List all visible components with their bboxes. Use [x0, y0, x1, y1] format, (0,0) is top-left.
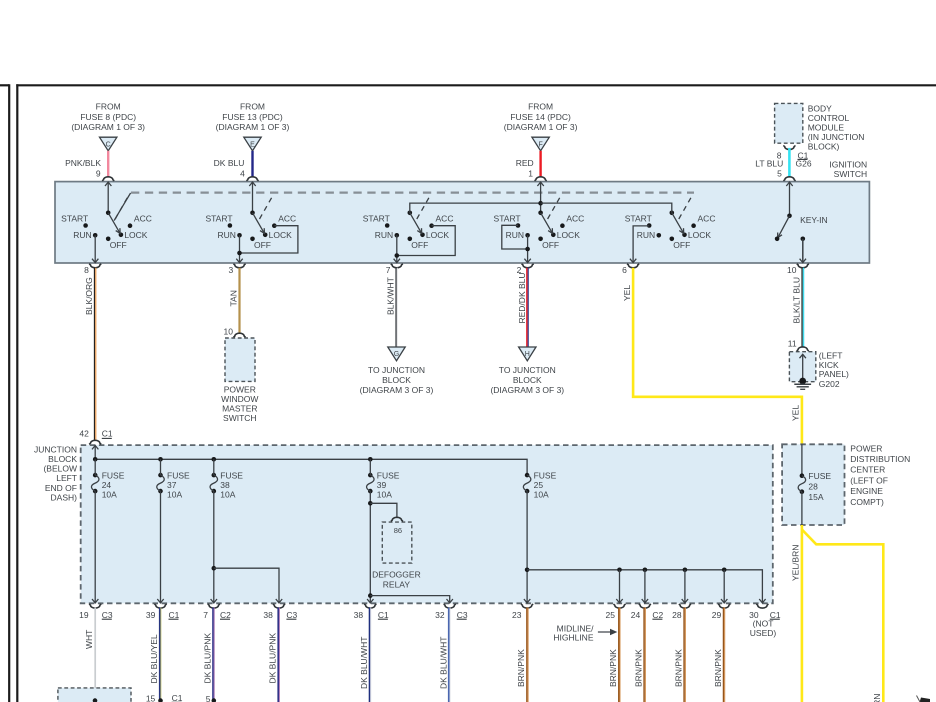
switch cluster 2: rotor arm to LOCK [250, 211, 264, 234]
svg-text:BRN/PNK: BRN/PNK [516, 649, 526, 687]
svg-text:IGNITION: IGNITION [829, 160, 867, 170]
svg-text:DK BLU/PNK: DK BLU/PNK [268, 633, 278, 684]
switch cluster 5: output from START via left leg [630, 226, 649, 263]
node WHT wire termination [93, 698, 98, 702]
svg-text:BLK/LT BLU: BLK/LT BLU [792, 277, 802, 323]
svg-text:5: 5 [777, 169, 782, 179]
svg-text:SWITCH: SWITCH [834, 169, 868, 179]
fuse 28 15A [798, 444, 831, 525]
svg-text:START: START [205, 213, 232, 223]
svg-text:23: 23 [512, 610, 522, 620]
svg-text:START: START [494, 213, 521, 223]
switch cluster 4: linkage dashes [548, 194, 562, 219]
switch cluster 3: rotor arm to LOCK [408, 211, 422, 234]
svg-text:JUNCTION: JUNCTION [34, 445, 77, 455]
svg-text:TAN: TAN [229, 290, 239, 306]
mechanical linkage dashed line [131, 191, 694, 193]
switch cluster 1: position labels START/ACC/RUN/LOCK/OFF [61, 213, 152, 250]
svg-text:FUSE: FUSE [534, 470, 557, 480]
svg-text:OFF: OFF [110, 240, 127, 250]
fuse 24 10A [91, 470, 124, 499]
svg-text:WHT: WHT [84, 630, 94, 649]
svg-text:(IN JUNCTION: (IN JUNCTION [808, 132, 865, 142]
switch cluster 3: ACC jumper bracket [395, 226, 456, 258]
svg-text:OFF: OFF [542, 240, 559, 250]
svg-text:37: 37 [167, 480, 177, 490]
svg-text:39: 39 [377, 480, 387, 490]
svg-text:ACC: ACC [566, 213, 584, 223]
defogger relay K1 (dashed box) pin 86 [382, 517, 412, 563]
junction block pin 42 connector C1 [79, 428, 113, 444]
power distribution center (dashed box) [782, 444, 844, 525]
svg-text:BLOCK: BLOCK [382, 375, 411, 385]
svg-text:FUSE 8 (PDC): FUSE 8 (PDC) [80, 112, 136, 122]
svg-text:8: 8 [84, 265, 89, 275]
svg-text:C1: C1 [102, 428, 113, 438]
wire RED/DK BLU (pin 2 to connector H) [517, 268, 528, 347]
svg-text:1: 1 [528, 169, 533, 179]
switch cluster 3: riser to feed line [410, 203, 541, 213]
svg-text:4: 4 [240, 169, 245, 179]
svg-text:ACC: ACC [278, 213, 296, 223]
svg-text:10: 10 [787, 265, 797, 275]
label MIDLINE/HIGHLINE with arrow [553, 624, 617, 643]
svg-text:FUSE: FUSE [220, 470, 243, 480]
node on bus at fuse 38 [212, 457, 217, 462]
label FROM FUSE 8 (PDC) [71, 102, 145, 132]
wire fuse 39 down to pin 38-C1 [367, 459, 373, 603]
svg-text:RUN: RUN [73, 230, 91, 240]
fuse 25 10A [523, 470, 556, 499]
svg-text:RED: RED [516, 158, 534, 168]
svg-text:START: START [363, 213, 390, 223]
power window master switch (dashed box) [224, 327, 255, 382]
wire BRN/PNK (pin 23 down) [516, 608, 528, 702]
switch cluster 5: linkage dashes [679, 194, 693, 219]
svg-text:START: START [61, 213, 88, 223]
svg-text:OFF: OFF [254, 240, 271, 250]
switch cluster 2: contact dots [228, 223, 277, 241]
svg-text:25: 25 [606, 610, 616, 620]
node on bus at fuse 37 [158, 457, 163, 462]
wire BLK/WHT (pin 7 to connector G) [386, 268, 398, 347]
switch cluster 4: START jumper bracket [502, 225, 530, 251]
connector triangle G (to junction block) [388, 347, 405, 361]
label POWER WINDOW MASTER SWITCH [221, 385, 258, 423]
svg-text:FUSE: FUSE [808, 471, 831, 481]
svg-text:ACC: ACC [436, 213, 454, 223]
svg-text:DASH): DASH) [51, 492, 78, 502]
wire BRN/PNK (pin 29 down) [713, 608, 725, 702]
svg-text:RUN: RUN [217, 230, 235, 240]
svg-text:TO JUNCTION: TO JUNCTION [499, 365, 556, 375]
switch cluster 5: contact dots [647, 223, 696, 241]
wire BRN/PNK (pin 25 down) [608, 608, 620, 702]
svg-text:LEFT: LEFT [56, 473, 77, 483]
wire DK BLU/PNK (pin 7 down) [202, 608, 214, 701]
node on bus at fuse 39 [368, 457, 373, 462]
switch cluster 4: contact dots [516, 223, 565, 241]
svg-text:BRN/PNK: BRN/PNK [674, 649, 684, 687]
svg-text:BLK/WHT: BLK/WHT [386, 277, 396, 315]
svg-text:DK BLU/WHT: DK BLU/WHT [438, 637, 448, 689]
switch cluster 4: output from RUN down [524, 235, 530, 263]
switch cluster 3: contact dots [385, 223, 434, 241]
junction block bottom pin labels [79, 610, 781, 620]
svg-text:FUSE 13 (PDC): FUSE 13 (PDC) [222, 112, 283, 122]
svg-text:BRN/PNK: BRN/PNK [713, 649, 723, 687]
wire DK BLU/PNK (pin 38-C3 down) [268, 608, 280, 702]
svg-text:10A: 10A [167, 489, 182, 499]
switch cluster 5: feed corner from line [541, 203, 672, 213]
svg-text:DISTRIBUTION: DISTRIBUTION [850, 454, 910, 464]
switch cluster 3: output from RUN down [394, 235, 400, 263]
svg-text:5: 5 [206, 694, 211, 702]
fuse 38 10A [210, 470, 243, 499]
switch cluster 3: linkage dashes [417, 194, 431, 219]
svg-text:25: 25 [534, 480, 544, 490]
wire DK BLU (fuse 13 to ignition pin 4) [214, 151, 253, 179]
wire TAN (pin 3 to power window master switch) [229, 268, 240, 334]
switch cluster 1: linkage dashes [115, 194, 129, 219]
ground G202 internal arrow [799, 354, 806, 384]
svg-text:LOCK: LOCK [557, 230, 580, 240]
ignition switch SW1 (box) [55, 182, 869, 263]
svg-text:10A: 10A [377, 489, 392, 499]
svg-text:YEL/BRN: YEL/BRN [791, 545, 801, 581]
wire fuse 24 to pin 19 [92, 459, 98, 603]
svg-text:(DIAGRAM 1 OF 3): (DIAGRAM 1 OF 3) [504, 122, 578, 132]
svg-text:(DIAGRAM 1 OF 3): (DIAGRAM 1 OF 3) [71, 122, 145, 132]
svg-text:LOCK: LOCK [269, 230, 292, 240]
wire YEL/BRN (fuse 28 output, right branch) [802, 530, 883, 702]
rail node to pin 25 [616, 568, 622, 604]
svg-text:CONTROL: CONTROL [808, 113, 850, 123]
svg-text:86: 86 [394, 526, 402, 535]
switch cluster 1: contact dots [83, 223, 132, 241]
svg-text:OFF: OFF [411, 240, 428, 250]
switch cluster 4: feed junction node [538, 201, 543, 206]
svg-text:10A: 10A [220, 489, 235, 499]
node fuse 39 branch to pin 32-C3 [368, 593, 453, 603]
ground G202 (dashed box, left kick panel) [788, 338, 816, 381]
svg-text:END OF: END OF [45, 483, 77, 493]
svg-text:RUN: RUN [506, 230, 524, 240]
svg-text:15: 15 [146, 694, 156, 702]
label JUNCTION BLOCK (BELOW LEFT END OF DASH) [34, 445, 77, 503]
label TO JUNCTION BLOCK (H) [490, 365, 564, 395]
entry arrow pin 42 [92, 445, 98, 459]
pin 5 label and node [206, 694, 216, 702]
junction block bus [95, 459, 527, 475]
bottom-left module (dashed box, cut off) [58, 688, 131, 702]
rail node to pin 29 [721, 568, 727, 604]
bottom pin numbers 8/3/7/2/6/10 [84, 265, 797, 275]
svg-text:3: 3 [228, 265, 233, 275]
svg-text:G202: G202 [819, 379, 840, 389]
svg-text:COMPT): COMPT) [850, 497, 884, 507]
svg-text:ACC: ACC [698, 213, 716, 223]
svg-text:DK BLU/WHT: DK BLU/WHT [359, 637, 369, 689]
fuse 39 10A [367, 470, 400, 499]
svg-text:28: 28 [808, 481, 818, 491]
svg-text:OFF: OFF [673, 240, 690, 250]
svg-text:LOCK: LOCK [124, 230, 147, 240]
connector triangle E [244, 137, 261, 151]
wire BLK/ORG (pin 8 to junction block pin 42) [84, 268, 96, 441]
svg-text:38: 38 [263, 610, 273, 620]
svg-text:15A: 15A [808, 492, 823, 502]
connector triangle H (to junction block) [519, 347, 536, 361]
switch cluster 4: rotor arm to LOCK [538, 211, 552, 234]
svg-text:29: 29 [712, 610, 722, 620]
wire fuse 37 to pin 39 [157, 459, 163, 603]
switch cluster 1: output from RUN down [92, 235, 98, 263]
svg-text:6: 6 [622, 265, 627, 275]
wire BRN/PNK (pin 28 down) [674, 608, 686, 702]
svg-text:E: E [250, 142, 255, 149]
svg-text:FROM: FROM [240, 102, 265, 112]
svg-text:C: C [106, 142, 111, 149]
svg-text:LT BLU: LT BLU [755, 159, 783, 169]
svg-text:ENGINE: ENGINE [850, 486, 883, 496]
svg-text:START: START [625, 213, 652, 223]
KEY-IN output contact [800, 237, 806, 264]
wire DK BLU/WHT (pin 32-C3 down) [438, 608, 450, 702]
svg-text:FROM: FROM [528, 102, 553, 112]
label POWER DISTRIBUTION CENTER (LEFT OF ENGINE COMPT) [850, 443, 910, 507]
svg-text:YEL/BRN: YEL/BRN [872, 694, 882, 702]
svg-text:YEL: YEL [791, 405, 801, 421]
svg-text:9: 9 [96, 169, 101, 179]
linkage bend to cluster 1 arm [114, 193, 131, 221]
svg-text:USED): USED) [750, 628, 777, 638]
svg-text:(DIAGRAM 3 OF 3): (DIAGRAM 3 OF 3) [360, 385, 434, 395]
switch cluster 5: rotor arm to LOCK [670, 211, 684, 234]
svg-text:RELAY: RELAY [383, 579, 411, 589]
connector triangle C [100, 137, 117, 151]
svg-text:BLOCK): BLOCK) [808, 141, 840, 151]
wire DK BLU/YEL (pin 39 down) [149, 608, 161, 701]
svg-text:32: 32 [435, 610, 445, 620]
wire DK BLU/WHT (pin 38-C1 down) [359, 608, 371, 702]
svg-text:SWITCH: SWITCH [223, 413, 257, 423]
svg-text:POWER: POWER [850, 443, 882, 453]
svg-text:H: H [525, 351, 530, 358]
svg-text:TO JUNCTION: TO JUNCTION [368, 365, 425, 375]
wire WHT (pin 19 down) [84, 608, 95, 701]
wire YEL/BRN (fuse 28 output, straight branch) [791, 525, 802, 702]
svg-text:(NOT: (NOT [753, 619, 774, 629]
svg-text:(DIAGRAM 1 OF 3): (DIAGRAM 1 OF 3) [216, 122, 290, 132]
svg-text:DK BLU/YEL: DK BLU/YEL [149, 634, 159, 683]
ground symbol [794, 384, 811, 389]
label (LEFT KICK PANEL) G202 [819, 350, 849, 389]
svg-text:RED/DK BLU: RED/DK BLU [517, 272, 527, 323]
svg-text:24: 24 [102, 480, 112, 490]
svg-text:LOCK: LOCK [688, 230, 711, 240]
svg-text:PNK/BLK: PNK/BLK [65, 158, 101, 168]
rail node to pin 28 [682, 568, 688, 604]
label TO JUNCTION BLOCK (G) [360, 365, 434, 395]
svg-text:BRN/PNK: BRN/PNK [608, 649, 618, 687]
switch cluster 2: position labels START/ACC/RUN/LOCK/OFF [205, 213, 296, 250]
svg-text:C1: C1 [172, 693, 183, 702]
svg-text:10A: 10A [534, 489, 549, 499]
svg-text:DK BLU/PNK: DK BLU/PNK [202, 633, 212, 684]
switch cluster 4: input wire from top with arrow [537, 182, 543, 213]
wire RED (fuse 14 to ignition pin 1) [516, 151, 541, 179]
svg-text:KEY-IN: KEY-IN [800, 215, 828, 225]
ignition box top pin bumps 9/4/1/5 [102, 177, 796, 181]
svg-text:G: G [394, 351, 399, 358]
svg-text:FUSE: FUSE [167, 470, 190, 480]
svg-text:(DIAGRAM 3 OF 3): (DIAGRAM 3 OF 3) [490, 385, 564, 395]
svg-text:39: 39 [146, 610, 156, 620]
svg-text:10A: 10A [102, 489, 117, 499]
BCM pin 8 connector C1 bump [777, 146, 809, 161]
distribution rail from fuse 25 [525, 568, 766, 604]
wire BLK/LT BLU (pin 10 to ground G202) [792, 268, 804, 347]
label DEFOGGER RELAY [372, 569, 421, 589]
svg-text:LOCK: LOCK [426, 230, 449, 240]
switch cluster 2: input wire from top with arrow [249, 182, 255, 213]
switch cluster 5: position labels START/ACC/RUN/LOCK/OFF [625, 213, 716, 250]
svg-text:RUN: RUN [375, 230, 393, 240]
svg-text:(LEFT OF: (LEFT OF [850, 475, 888, 485]
svg-text:BLK/ORG: BLK/ORG [84, 277, 94, 315]
svg-text:24: 24 [631, 610, 641, 620]
svg-text:19: 19 [79, 610, 89, 620]
svg-text:RUN: RUN [637, 230, 655, 240]
label FROM FUSE 14 (PDC) [504, 102, 578, 132]
svg-text:38: 38 [354, 610, 364, 620]
wire BRN/PNK (pin 24 down) [634, 608, 646, 702]
svg-text:G26: G26 [796, 159, 812, 169]
adjacent page edge (left fragment) [0, 84, 9, 702]
svg-text:YEL: YEL [622, 285, 632, 301]
switch cluster 2: output from RUN down [236, 235, 242, 263]
svg-text:38: 38 [220, 480, 230, 490]
svg-text:ACC: ACC [134, 213, 152, 223]
wire PNK/BLK (fuse 8 to ignition pin 9) [65, 151, 108, 179]
svg-text:BRN/PNK: BRN/PNK [634, 649, 644, 687]
svg-text:FROM: FROM [96, 102, 121, 112]
svg-text:BLOCK: BLOCK [48, 454, 77, 464]
switch cluster 3: position labels START/ACC/RUN/LOCK/OFF [363, 213, 454, 250]
svg-text:28: 28 [672, 610, 682, 620]
node fuse 39 to defogger relay [368, 501, 397, 517]
connector triangle F [532, 137, 549, 151]
svg-text:F: F [538, 142, 542, 149]
svg-text:HIGHLINE: HIGHLINE [553, 633, 593, 643]
switch cluster 1: input wire from top with arrow [105, 182, 111, 213]
switch cluster 2: linkage dashes [260, 194, 274, 219]
svg-text:BLOCK: BLOCK [513, 375, 542, 385]
wire fuse 25 down to pin 23 [524, 491, 530, 603]
ignition box bottom pin bumps 8/3/7/2/6/10 [89, 264, 809, 268]
wire YEL (pin 6 to PDC fuse 28) [622, 268, 802, 445]
svg-text:11: 11 [788, 338, 797, 348]
rail node to pin 24 [642, 568, 648, 604]
junction block bottom bumps [89, 604, 768, 608]
svg-text:PANEL): PANEL) [819, 369, 849, 379]
pin 15 C1 labels and node [146, 693, 183, 702]
svg-text:DEFOGGER: DEFOGGER [372, 569, 421, 579]
svg-text:(BELOW: (BELOW [43, 464, 77, 474]
svg-text:FUSE: FUSE [377, 470, 400, 480]
label FROM FUSE 13 (PDC) [216, 102, 290, 132]
KEY-IN switch [775, 182, 828, 241]
switch cluster 2: ACC jumper bracket [237, 226, 298, 256]
label (NOT USED) pin 30 [750, 619, 777, 639]
node on bus at fuse 24 [93, 457, 98, 462]
switch cluster 4: position labels START/ACC/RUN/LOCK/OFF [494, 213, 585, 250]
svg-text:7: 7 [386, 265, 391, 275]
svg-text:DK BLU: DK BLU [214, 158, 245, 168]
svg-text:7: 7 [203, 610, 208, 620]
svg-text:FUSE: FUSE [102, 470, 125, 480]
wire fuse 38 down, node, branch to pin 38-C3 [211, 459, 283, 603]
label IGNITION SWITCH [829, 160, 867, 180]
svg-text:POWER: POWER [224, 385, 256, 395]
fuse 37 10A [157, 470, 190, 499]
svg-text:10: 10 [224, 327, 234, 337]
svg-text:42: 42 [79, 428, 89, 438]
page-edge mark bottom right [917, 696, 931, 702]
switch cluster 1: rotor arm to LOCK [106, 211, 120, 234]
svg-text:CENTER: CENTER [850, 465, 885, 475]
svg-text:FUSE 14 (PDC): FUSE 14 (PDC) [510, 112, 571, 122]
junction block (dashed box) [81, 445, 773, 603]
wire LT BLU (BCM pin 8 to ignition pin 5), splice G26 [755, 148, 812, 179]
label BODY CONTROL MODULE [808, 104, 865, 152]
svg-text:MASTER: MASTER [222, 404, 257, 414]
body control module U-BCM (dashed box) [775, 103, 803, 143]
